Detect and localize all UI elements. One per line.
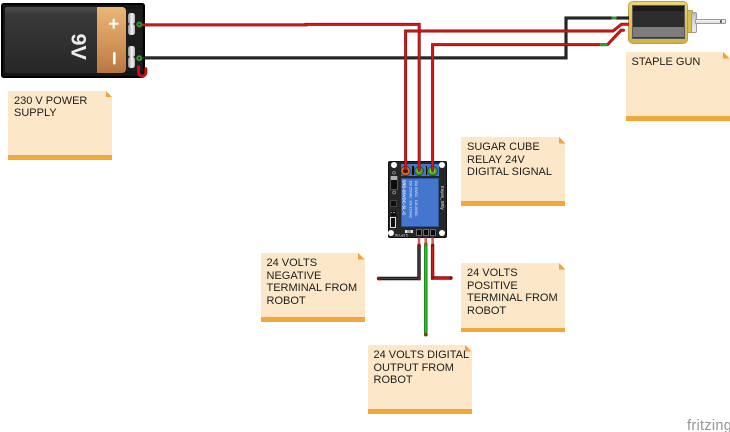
relay module PCB Keyes_SRly	[388, 161, 447, 238]
battery BT1 9V case	[1, 3, 145, 79]
solenoid collar	[691, 12, 698, 33]
wire: relay terminal 3 toward solenoid (red)	[433, 30, 624, 171]
green wire end dots	[424, 242, 427, 245]
smd transistor Q2	[391, 211, 396, 216]
svg-text:9V: 9V	[67, 34, 91, 61]
battery plus terminal	[128, 13, 135, 23]
mounting hole TL	[391, 162, 397, 168]
svg-text:IN Led 5: IN Led 5	[395, 234, 408, 238]
note: 24 VOLTS DIGITAL OUTPUT FROM ROBOT	[368, 345, 472, 414]
screw terminal 1 (orange)	[401, 167, 409, 175]
wire: relay terminal 1 to solenoid (red)	[406, 24, 629, 171]
smd resistor bottom	[405, 230, 413, 234]
relay blue body	[401, 178, 440, 227]
battery cell dark body	[5, 7, 97, 73]
svg-text:Keyes_SRly: Keyes_SRly	[440, 186, 445, 211]
terminal separator 1	[412, 166, 413, 175]
wire: relay pin2 digital signal (green)	[424, 244, 427, 335]
battery plus green connector dot	[137, 23, 141, 27]
mounting hole TR	[439, 162, 445, 168]
wire: relay pin3 to positive terminal (red)	[433, 245, 451, 278]
solenoid body (staple gun)	[628, 1, 688, 44]
battery minus terminal	[128, 46, 135, 56]
battery red clip hook	[139, 67, 146, 76]
via ring top	[393, 171, 396, 174]
svg-text:10A 250VAC 10A 125VAC: 10A 250VAC 10A 125VAC	[409, 181, 413, 219]
svg-text:10A 30VDC 10A 28VDC: 10A 30VDC 10A 28VDC	[414, 181, 418, 218]
pin 3	[430, 229, 436, 236]
note: 24 VOLTS NEGATIVE TERMINAL FROM ROBOT	[261, 253, 365, 322]
note: SUGAR CUBE RELAY 24V DIGITAL SIGNAL	[461, 137, 565, 206]
plunger pin hole	[720, 20, 723, 23]
terminal separator 2	[426, 166, 427, 175]
resistor R1	[390, 217, 396, 228]
battery minus green connector dot	[137, 56, 141, 60]
wire: battery minus to solenoid (black)	[141, 18, 629, 58]
transistor Q1	[390, 200, 396, 207]
green connection marker on red wire	[600, 43, 608, 46]
wire: relay pin1 to negative terminal (black)	[379, 245, 420, 279]
junction dots black wire	[417, 244, 420, 247]
solenoid coil dark block	[632, 5, 686, 40]
battery plus sign	[109, 19, 119, 29]
screw terminal 3 (green)	[428, 167, 436, 175]
junction dots red wire	[431, 244, 434, 247]
note: 230 V POWER SUPPLY	[8, 91, 112, 160]
pin 1	[416, 229, 422, 236]
mounting hole BL	[388, 230, 394, 236]
mounting hole BR	[439, 230, 445, 236]
relay pin stubs	[418, 237, 421, 245]
note: STAPLE GUN	[626, 52, 730, 121]
svg-text:SRD-05VDC-SL-C: SRD-05VDC-SL-C	[402, 180, 407, 216]
green connection marker on black wire	[612, 17, 617, 20]
solenoid plunger shaft	[695, 19, 726, 24]
pin 2	[423, 229, 429, 236]
battery minus sign	[113, 53, 116, 63]
battery terminal recess	[126, 9, 142, 71]
screw terminal 2 (green)	[415, 167, 423, 175]
note: 24 VOLTS POSITIVE TERMINAL FROM ROBOT	[461, 263, 565, 332]
terminal center dots under wire ends	[404, 170, 407, 173]
battery copper band	[97, 7, 127, 73]
wire: battery plus down to relay terminal 2 (red)	[141, 24, 419, 171]
fritzing watermark	[687, 418, 730, 432]
diode D1	[390, 176, 397, 190]
solenoid mount nub	[687, 10, 693, 34]
relay terminal strip	[401, 164, 440, 176]
via ring mid	[393, 191, 396, 194]
